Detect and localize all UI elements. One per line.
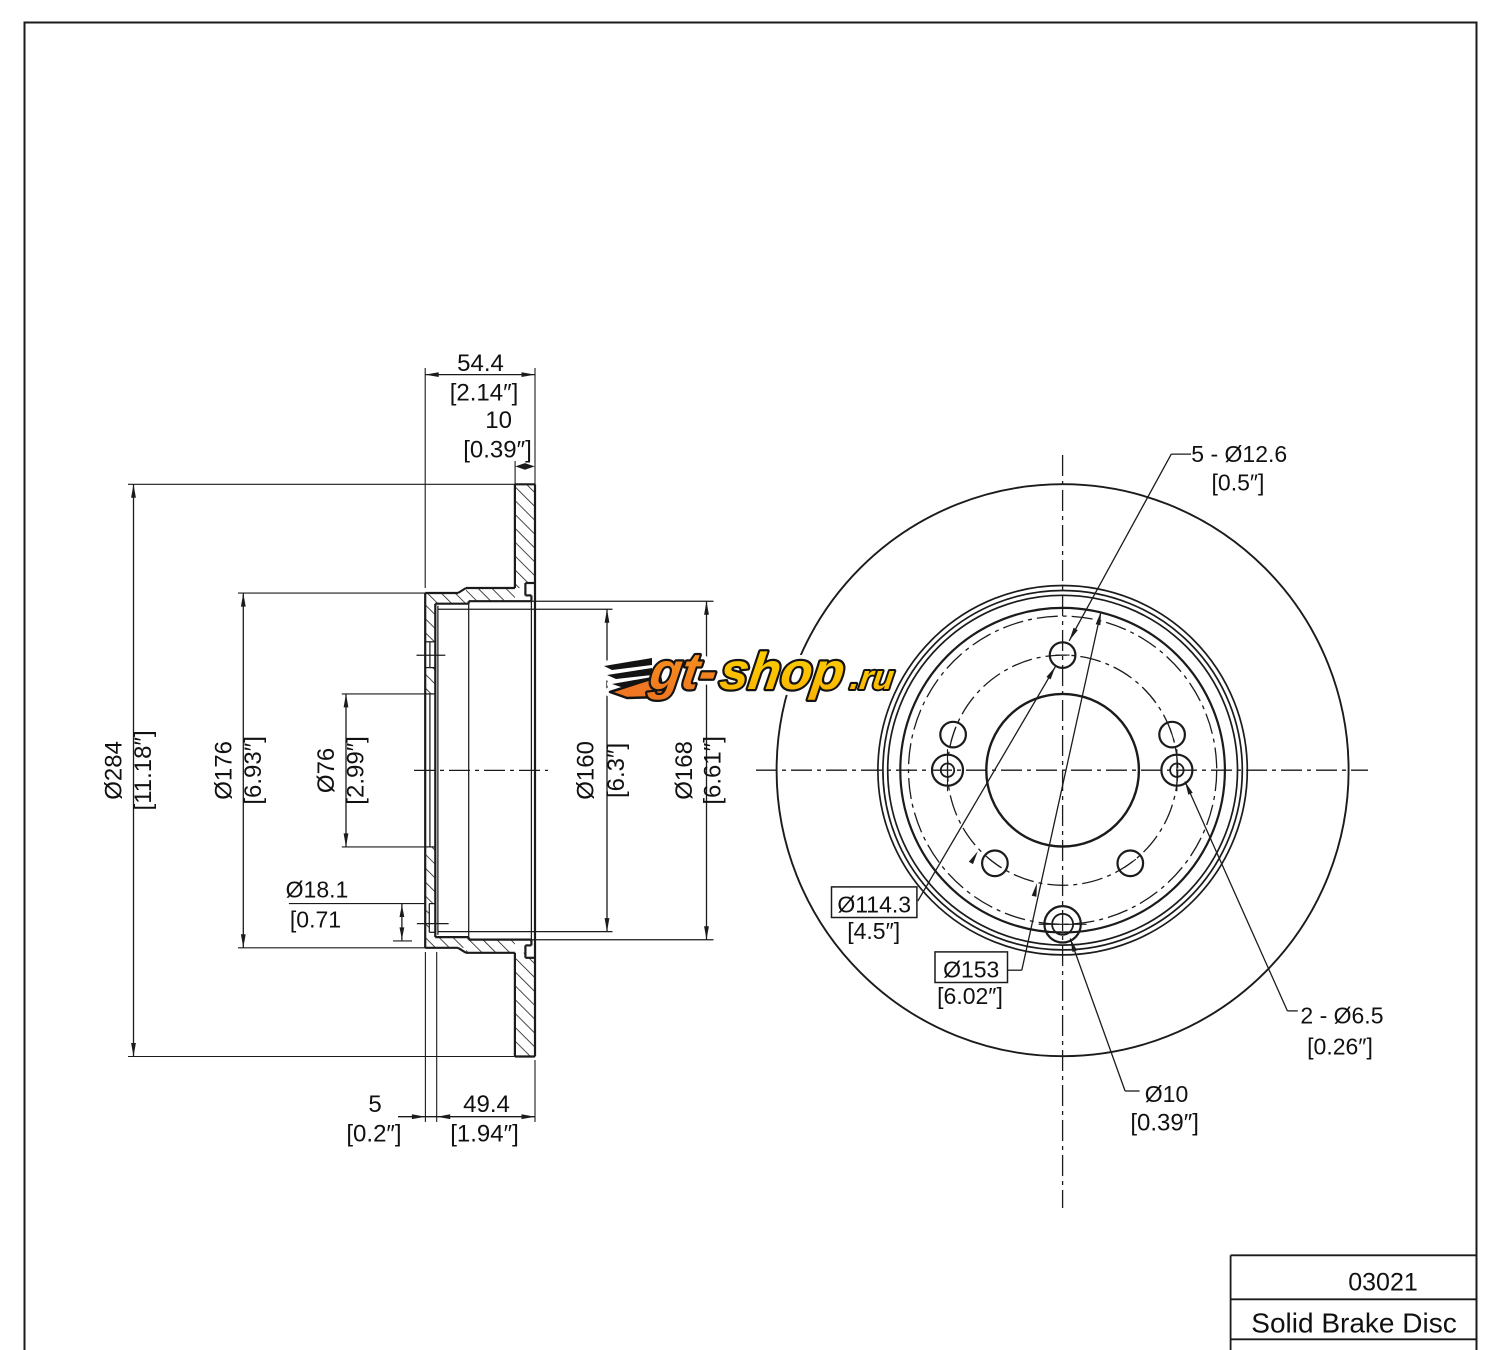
svg-text:[0.39″]: [0.39″] (463, 437, 532, 464)
svg-text:54.4: 54.4 (457, 350, 504, 377)
svg-text:Solid Brake Disc: Solid Brake Disc (1251, 1308, 1456, 1339)
svg-text:[6.61″]: [6.61″] (700, 736, 727, 805)
svg-text:03021: 03021 (1348, 1269, 1418, 1297)
svg-text:.ru: .ru (848, 659, 897, 697)
svg-text:[0.71: [0.71 (290, 907, 341, 933)
svg-text:[0.5″]: [0.5″] (1212, 470, 1265, 496)
svg-text:Ø76: Ø76 (313, 748, 340, 793)
svg-text:[6.3″]: [6.3″] (603, 743, 630, 798)
svg-text:[2.14″]: [2.14″] (450, 380, 519, 407)
svg-text:10: 10 (485, 407, 512, 434)
svg-text:[4.5″]: [4.5″] (847, 918, 900, 944)
svg-text:Ø168: Ø168 (671, 741, 698, 800)
svg-text:5 - Ø12.6: 5 - Ø12.6 (1191, 441, 1287, 467)
svg-text:Ø284: Ø284 (101, 741, 128, 800)
svg-text:[2.99″]: [2.99″] (343, 736, 370, 805)
svg-text:5: 5 (368, 1091, 381, 1118)
svg-text:2 - Ø6.5: 2 - Ø6.5 (1300, 1003, 1383, 1029)
svg-text:Ø114.3: Ø114.3 (837, 892, 911, 918)
svg-text:[11.18″]: [11.18″] (130, 730, 157, 810)
svg-text:Ø18.1: Ø18.1 (286, 877, 349, 903)
svg-text:49.4: 49.4 (463, 1091, 510, 1118)
svg-text:[1.94″]: [1.94″] (450, 1121, 519, 1148)
svg-text:[6.02″]: [6.02″] (937, 983, 1003, 1009)
svg-text:Ø10: Ø10 (1145, 1081, 1188, 1107)
svg-text:gt-: gt- (645, 643, 720, 701)
svg-text:[0.39″]: [0.39″] (1130, 1110, 1199, 1137)
svg-text:[0.26″]: [0.26″] (1307, 1034, 1373, 1060)
svg-text:[0.2″]: [0.2″] (346, 1121, 401, 1148)
svg-text:shop: shop (716, 643, 848, 701)
svg-text:Ø176: Ø176 (211, 741, 238, 800)
svg-text:Ø160: Ø160 (573, 741, 600, 800)
svg-text:Ø153: Ø153 (943, 957, 999, 983)
svg-text:[6.93″]: [6.93″] (240, 736, 267, 805)
